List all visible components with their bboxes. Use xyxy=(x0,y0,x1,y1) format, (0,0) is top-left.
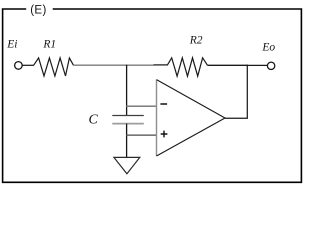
wire ground net branch to non-inverting input xyxy=(126,134,156,136)
wire node A branch to inverting input xyxy=(126,105,156,107)
wire Ei terminal to R1 xyxy=(22,64,34,66)
wire node A to R2 xyxy=(126,64,154,66)
terminal Ei xyxy=(15,62,23,70)
wire to R2 xyxy=(154,64,168,66)
svg-text:C: C xyxy=(89,112,99,127)
ground xyxy=(114,157,140,173)
svg-text:R2: R2 xyxy=(189,34,203,46)
resistor R2 xyxy=(167,58,207,76)
capacitor C top plate xyxy=(112,115,144,117)
op-amp non-inverting pin mark xyxy=(161,131,168,138)
op-amp inverting pin mark xyxy=(160,103,167,105)
wire op-amp output xyxy=(225,117,248,119)
capacitor C bottom plate xyxy=(112,123,144,125)
terminal Eo xyxy=(267,62,274,69)
svg-text:R1: R1 xyxy=(42,38,56,50)
svg-text:Eo: Eo xyxy=(261,42,275,54)
svg-text:Ei: Ei xyxy=(6,38,17,50)
resistor R1 xyxy=(34,58,74,76)
wire junction to Eo terminal xyxy=(247,64,268,66)
wire feedback up to junction xyxy=(246,65,248,119)
op-amp U1 xyxy=(157,80,226,156)
wire R2 to feedback junction xyxy=(208,64,248,66)
svg-text:(E): (E) xyxy=(30,4,47,16)
wire node A down to capacitor xyxy=(126,65,128,116)
wire R1 to node A xyxy=(74,64,128,66)
wire capacitor to ground xyxy=(126,124,128,158)
